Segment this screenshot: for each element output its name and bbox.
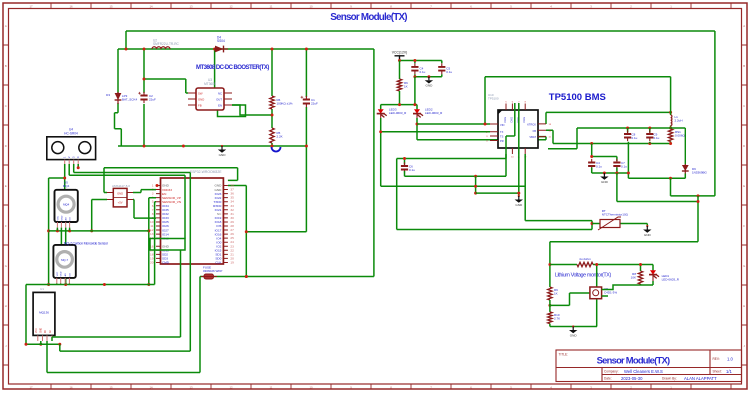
wire C8 stub upper	[627, 128, 629, 132]
wire MQ7 pin nets	[57, 284, 70, 285]
svg-text:4u 2ohm: 4u 2ohm	[579, 257, 591, 261]
sensor U1 MQ136	[33, 287, 55, 341]
wire FB divider link	[232, 105, 272, 115]
wire HC-SR04 pin1 net	[49, 164, 65, 190]
wire L1 upper	[670, 77, 672, 115]
wire C8 drop to gnd bus	[627, 142, 629, 173]
svg-text:15: 15	[109, 4, 113, 8]
IC U10 TP5100 charger	[486, 93, 551, 159]
svg-text:AO: AO	[65, 217, 68, 220]
resistor R6 100K	[270, 96, 293, 109]
svg-text:GND: GND	[219, 153, 227, 157]
junction opto top	[595, 263, 598, 266]
junction L1-RS1 node	[669, 127, 672, 130]
diode D3 BAT_SCK4	[106, 92, 137, 104]
svg-text:MQ-7 Carbon Monoxide Sensor: MQ-7 Carbon Monoxide Sensor	[64, 241, 109, 245]
junction caps mid	[590, 155, 593, 158]
svg-text:E: E	[743, 184, 745, 188]
wire +BAT rail	[118, 48, 374, 50]
junction fuse taps	[245, 275, 248, 278]
wire opto top stub	[596, 265, 598, 288]
svg-text:0.1u: 0.1u	[446, 70, 452, 74]
svg-text:GND: GND	[644, 233, 652, 237]
svg-text:DO: DO	[69, 273, 71, 277]
svg-text:TP5100 BMS: TP5100 BMS	[549, 92, 606, 103]
svg-text:REV:: REV:	[713, 357, 720, 361]
wire R7 upper	[399, 61, 401, 80]
capacitor C2 22uF	[138, 92, 156, 103]
wire vB drop through ESP32	[189, 173, 191, 352]
wire LED3 cathode drop	[380, 118, 382, 186]
resistor RS1 0.006	[668, 129, 685, 142]
svg-text:10: 10	[309, 385, 313, 389]
svg-text:TITLE:: TITLE:	[559, 353, 569, 357]
svg-text:F: F	[743, 224, 745, 228]
svg-text:AMS1117-5.0: AMS1117-5.0	[112, 184, 130, 188]
svg-text:2.2uH: 2.2uH	[675, 119, 683, 123]
resistor R7 1K	[397, 79, 408, 91]
svg-text:MT3608 DC-DC BOOSTER(TX): MT3608 DC-DC BOOSTER(TX)	[196, 65, 269, 71]
svg-text:C: C	[743, 104, 745, 108]
svg-text:TX: TX	[500, 130, 504, 134]
wire R9-R10 link	[549, 300, 551, 312]
svg-text:11: 11	[270, 385, 273, 389]
wire C9 drop to sense	[649, 142, 651, 144]
ground GND of boost rail	[221, 145, 223, 147]
wire lithium gnd bus	[550, 326, 597, 328]
junction LED2 node	[416, 123, 419, 126]
capacitor C10 0.1u	[588, 159, 602, 170]
resistor R10	[548, 312, 560, 324]
svg-text:Company:: Company:	[604, 370, 619, 374]
wire SENSOR_VN drop	[155, 202, 156, 285]
capacitor C1 22uF	[301, 96, 318, 107]
wire boost output drop	[373, 49, 375, 277]
svg-text:GND: GND	[41, 328, 43, 333]
svg-text:Sensor Module(TX): Sensor Module(TX)	[330, 12, 407, 23]
wire R5 lower	[271, 143, 273, 146]
svg-text:FB: FB	[198, 104, 202, 108]
junction sense taps	[590, 142, 593, 145]
resistor R5 2.2K	[270, 128, 283, 143]
svg-text:GND: GND	[570, 334, 578, 338]
diode D4 SS04	[214, 36, 228, 53]
svg-text:GND: GND	[61, 215, 63, 220]
wire C6 bottom	[404, 171, 406, 176]
wire R6-R5 mid	[271, 109, 273, 128]
svg-text:DO: DO	[70, 217, 72, 221]
junction C8 C9 tops	[626, 127, 629, 130]
ground GND of VCC caps	[428, 76, 430, 78]
wire KTRCK loop	[546, 112, 671, 124]
svg-text:GND: GND	[425, 84, 433, 88]
wire LED2 cathode drop	[416, 118, 418, 140]
svg-text:MQ136: MQ136	[39, 311, 49, 315]
wire HC-SR04 pin2 trace	[69, 164, 185, 175]
wire SENSOR_VP drop	[149, 198, 156, 285]
wire sensors analog bus	[26, 284, 155, 286]
wire MQ136 D0 bus	[60, 344, 191, 351]
junction LED3 gnd link	[474, 185, 477, 188]
wire MQ136 A0 bus	[47, 341, 200, 373]
svg-text:TS: TS	[500, 135, 504, 139]
svg-text:CMD: CMD	[162, 261, 170, 265]
wire vA drop through ESP32	[184, 175, 186, 238]
svg-text:CHG: CHG	[503, 117, 507, 123]
svg-text:+5V: +5V	[118, 200, 123, 204]
junction sensor_vp taps	[147, 229, 150, 232]
junction vcc bus taps	[56, 229, 59, 232]
svg-text:B: B	[743, 64, 745, 68]
LED LED3 LED-0603_R	[377, 108, 407, 119]
LED LED2 LED-0603_R	[413, 108, 443, 119]
svg-text:C: C	[5, 104, 7, 108]
svg-text:LED-0603_R: LED-0603_R	[425, 111, 443, 115]
svg-text:2.2K: 2.2K	[277, 135, 283, 139]
junction cap gnd bus	[413, 75, 416, 78]
ground GND of thermistor	[646, 225, 648, 227]
svg-text:ALAN ALAPPATT: ALAN ALAPPATT	[684, 376, 717, 381]
wire LED3 gnd link	[381, 176, 526, 193]
svg-text:1K: 1K	[404, 85, 408, 89]
svg-text:0.1u: 0.1u	[596, 165, 602, 169]
svg-text:22uF: 22uF	[149, 98, 156, 102]
wire right bus down	[714, 31, 716, 196]
capacitor C8 0.1u	[624, 130, 638, 141]
wire top-left drop	[125, 31, 127, 49]
wire C1 upper	[305, 49, 307, 97]
wire VBAT sense line	[546, 130, 671, 143]
wire sensors VCC bus	[49, 230, 149, 232]
svg-text:OUT: OUT	[216, 98, 222, 102]
junction divider taps	[548, 263, 551, 266]
title block	[556, 350, 742, 382]
svg-text:Lithium Voltage monitor(TX): Lithium Voltage monitor(TX)	[555, 273, 612, 279]
junction AMS vin	[90, 229, 93, 232]
svg-text:VBAT: VBAT	[529, 135, 536, 139]
wire AMS out to IO33	[133, 200, 156, 219]
svg-text:13: 13	[189, 4, 193, 8]
junction VIN link	[484, 123, 487, 126]
svg-text:Sheet:: Sheet:	[713, 370, 722, 374]
svg-text:2.7K: 2.7K	[554, 317, 560, 321]
svg-text:10: 10	[309, 4, 313, 8]
svg-text:PR: PR	[500, 139, 504, 143]
capacitor C9 0.1u	[646, 130, 659, 141]
wire AMS vin net	[92, 200, 107, 231]
svg-text:VCC: VCC	[36, 328, 38, 333]
svg-text:VCC: VCC	[57, 271, 59, 276]
wire C2 branch upper	[143, 49, 145, 93]
svg-text:HC-SR04: HC-SR04	[64, 131, 78, 135]
wire hop (blue arc)	[272, 147, 281, 152]
svg-text:GND: GND	[117, 191, 123, 195]
wire D4 anode drop	[214, 49, 216, 88]
svg-text:12: 12	[229, 385, 233, 389]
junction analog bus taps	[64, 283, 67, 286]
svg-text:B: B	[5, 64, 7, 68]
junction gnd pin link	[517, 192, 520, 195]
svg-text:H: H	[743, 304, 745, 308]
wire LED2 to FB	[417, 137, 546, 140]
svg-text:EN: EN	[218, 104, 222, 108]
wire sense resistor line	[550, 264, 653, 266]
wire right return link	[671, 178, 715, 196]
svg-text:GND: GND	[198, 98, 204, 102]
svg-text:15: 15	[109, 385, 113, 389]
wire MQ136 pin4 bus	[52, 337, 181, 341]
svg-text:GND: GND	[601, 180, 609, 184]
wire opto left link	[550, 293, 590, 305]
svg-text:KTRCK: KTRCK	[527, 123, 536, 127]
capacitor C6 0.1u	[401, 162, 415, 173]
svg-text:1K: 1K	[554, 292, 558, 296]
svg-text:MQ-7: MQ-7	[61, 258, 68, 262]
inductor U2 SMFR22U-TR-RC	[152, 39, 180, 50]
svg-text:CLK: CLK	[215, 261, 222, 265]
svg-text:17: 17	[29, 385, 33, 389]
junction LED bus	[398, 103, 401, 106]
junction mid return	[697, 200, 700, 203]
svg-text:G: G	[5, 264, 7, 268]
svg-text:LED-0603_R: LED-0603_R	[662, 278, 680, 282]
wire v1 drop to MQ136	[180, 250, 182, 337]
op-amp U3 MT3608 boost IC	[188, 78, 232, 110]
svg-text:Date:: Date:	[604, 377, 612, 381]
wire mid return to right	[617, 173, 698, 202]
wire 5V bus to right	[104, 168, 238, 193]
svg-text:Sensor Module(TX): Sensor Module(TX)	[597, 355, 670, 366]
wire LED2 stub	[416, 105, 418, 109]
junction thermistor node	[591, 222, 594, 225]
junction C6 top	[403, 157, 406, 160]
wire D9 lower stub	[684, 174, 686, 179]
svg-text:0.006Ω: 0.006Ω	[675, 134, 686, 138]
junction caps bottom	[603, 172, 606, 175]
svg-text:NTCThermistor10Ω: NTCThermistor10Ω	[602, 213, 629, 217]
svg-text:AO: AO	[64, 273, 67, 276]
svg-text:E: E	[5, 184, 7, 188]
svg-text:14: 14	[149, 385, 153, 389]
sensor U5 MQ4	[55, 181, 78, 228]
wire thermistor left net	[397, 159, 592, 230]
wire MQ4 pin nets	[57, 228, 69, 285]
optocoupler U8	[590, 287, 617, 299]
svg-text:D3: D3	[106, 93, 110, 97]
svg-text:0.1u: 0.1u	[654, 136, 660, 140]
wire left gnd drop	[48, 178, 50, 285]
ground GND of charger caps	[603, 172, 605, 174]
svg-text:LED-0603_R: LED-0603_R	[389, 111, 407, 115]
wire top bus	[126, 30, 715, 32]
capacitor C5 0.1u	[438, 63, 452, 74]
power VCC(12V) symbol	[395, 56, 405, 61]
wire HC-SR04 pin3 trace	[74, 164, 191, 173]
wire far-left gnd return	[26, 285, 60, 345]
svg-text:SW: SW	[198, 92, 203, 96]
svg-text:1/1: 1/1	[726, 369, 732, 374]
sensor U9 MQ-7	[53, 245, 75, 284]
wire battery minus bus	[628, 173, 685, 178]
wire gnd net mid	[405, 103, 515, 176]
junction L1 top tap	[669, 111, 672, 114]
svg-text:D: D	[5, 144, 7, 148]
junction HC pin1	[63, 177, 66, 180]
junction gnd return ends	[25, 343, 28, 346]
svg-text:SMFR22U-TR-RC: SMFR22U-TR-RC	[153, 42, 180, 46]
resistor R11 2ohm	[577, 257, 593, 267]
junction right return	[697, 194, 700, 197]
svg-text:1.0: 1.0	[727, 357, 733, 362]
sensor U4 HC-SR04	[47, 128, 96, 167]
wire battery branch upper	[117, 49, 119, 93]
ground GND of lithium monitor	[572, 325, 574, 327]
wire bottom rail (GND)	[118, 145, 306, 147]
LED LED1 LED-0603_R	[649, 270, 680, 282]
junction LED3-pin2	[379, 130, 382, 133]
wire GND cluster loop	[150, 239, 185, 251]
svg-text:NC: NC	[218, 92, 222, 96]
wire TS net to thermistor	[525, 154, 592, 224]
IC ESP32 pin labels	[150, 184, 234, 265]
wire fuse line	[200, 276, 374, 278]
wire RS1 lower	[670, 142, 672, 144]
svg-text:C4D1-3%: C4D1-3%	[604, 291, 617, 295]
junction dots power section	[125, 48, 128, 51]
wire VCC caps bus	[400, 61, 442, 64]
wire caps bottom bus	[592, 168, 629, 174]
svg-text:VCC: VCC	[57, 215, 59, 220]
svg-text:14: 14	[149, 4, 153, 8]
capacitor C7 0.1u	[613, 159, 627, 170]
svg-text:17: 17	[29, 4, 33, 8]
svg-text:A: A	[743, 24, 745, 28]
wire boost-to-charger top link	[485, 77, 671, 124]
wire MT3608 SW feed	[144, 79, 188, 93]
wire R7 to LEDs	[399, 91, 401, 105]
wire LED anode bus	[381, 104, 417, 106]
wire C4 bottom drop to LED bus	[414, 77, 416, 105]
wire gnd pin link	[476, 103, 519, 196]
svg-text:1N5369BG: 1N5369BG	[692, 171, 708, 175]
wire R10 bottom	[549, 324, 551, 327]
wire R6 upper	[271, 49, 273, 96]
svg-text:Drawn By:: Drawn By:	[662, 377, 677, 381]
svg-text:MQ4: MQ4	[63, 184, 70, 188]
junction loop top	[639, 263, 642, 266]
wire lithium top bus	[550, 241, 698, 243]
wire L1-RS1 mid	[670, 126, 672, 129]
capacitor C4 0.1u	[411, 63, 425, 74]
svg-text:0.1u: 0.1u	[409, 168, 415, 172]
wire R8 LED1 loop	[602, 265, 653, 297]
svg-text:11: 11	[270, 4, 273, 8]
fuse F1 0306026WKP	[201, 266, 222, 280]
IC ESP32 pin stubs	[156, 186, 228, 263]
resistor R8 10K	[631, 271, 643, 284]
svg-text:CHG: CHG	[509, 117, 513, 123]
svg-text:100KΩ ±1%: 100KΩ ±1%	[277, 102, 293, 106]
wire EN loop	[218, 105, 246, 117]
junction left drop taps	[47, 229, 50, 232]
wire C4 stub top	[414, 61, 416, 64]
svg-text:VCC(12V): VCC(12V)	[392, 51, 407, 55]
wire C2 branch lower	[143, 104, 145, 146]
regulator U7 AMS1117-5.0	[107, 184, 133, 207]
svg-text:GND: GND	[515, 203, 523, 207]
svg-text:0.1u: 0.1u	[621, 165, 627, 169]
wire AMS out to VDD33	[133, 190, 156, 193]
junction 5V bus taps	[77, 166, 80, 169]
svg-text:0.1u: 0.1u	[420, 70, 426, 74]
wire v3 drop	[199, 277, 201, 373]
svg-text:U1: U1	[40, 287, 44, 291]
svg-text:Well Cleaners E.W.S: Well Cleaners E.W.S	[624, 369, 663, 374]
svg-text:BAT_SCK4: BAT_SCK4	[122, 98, 137, 102]
junction cap bus	[398, 59, 401, 62]
diode D9 zener 1N5369BG	[682, 128, 708, 175]
wire caps mid bus	[592, 144, 617, 162]
wire LED3 stub	[380, 105, 382, 109]
svg-text:22uF: 22uF	[311, 102, 318, 106]
wire opto bottom stub	[596, 299, 598, 327]
svg-text:13: 13	[189, 385, 193, 389]
svg-text:MQ4: MQ4	[63, 203, 70, 207]
svg-text:SS04: SS04	[217, 39, 225, 43]
wire battery branch lower (with connector notch)	[115, 103, 122, 146]
thermistor RT NTC 10k	[598, 209, 629, 230]
wire prog net	[397, 154, 506, 159]
wire divider chain top	[549, 242, 551, 287]
svg-text:0.1u: 0.1u	[632, 136, 638, 140]
svg-text:G: G	[743, 264, 745, 268]
wire TP5100 pin2 line	[381, 131, 490, 133]
svg-text:H: H	[5, 304, 7, 308]
wire TP5100 VIN line	[417, 123, 490, 125]
svg-text:CHG: CHG	[522, 117, 526, 123]
junction gnd mid	[474, 175, 477, 178]
junction battery minus	[669, 177, 672, 180]
svg-text:MT3608: MT3608	[204, 82, 216, 86]
wire C9 stub upper	[649, 128, 651, 132]
inductor L1 2.2uH	[671, 115, 683, 126]
svg-text:D: D	[743, 144, 745, 148]
wire C8C9 top bus	[548, 128, 685, 149]
svg-text:20: 20	[150, 260, 154, 264]
svg-text:TP5100: TP5100	[488, 97, 499, 101]
wire C1 branch to ESP32	[228, 146, 307, 277]
svg-text:0306026 WKP: 0306026 WKP	[203, 269, 222, 273]
wire charger mid drop	[697, 196, 699, 242]
svg-text:19: 19	[230, 260, 234, 264]
resistor R9	[548, 287, 558, 300]
svg-text:F: F	[5, 224, 7, 228]
svg-text:12: 12	[229, 4, 233, 8]
svg-text:FB: FB	[533, 129, 537, 133]
wire C1 lower	[305, 107, 307, 146]
svg-text:ESP32-WROOM32E: ESP32-WROOM32E	[190, 170, 222, 174]
svg-text:16: 16	[69, 4, 73, 8]
svg-text:2023-05-30: 2023-05-30	[621, 376, 643, 381]
svg-text:16: 16	[69, 385, 73, 389]
ground GND under TP5100	[518, 195, 520, 197]
svg-text:A: A	[5, 24, 7, 28]
svg-text:10K: 10K	[631, 276, 636, 280]
wire cap gnd bus	[415, 74, 442, 77]
wire C6 stub top	[404, 159, 406, 165]
wire HC-SR04 pin4 trace	[78, 164, 237, 180]
svg-text:GND: GND	[61, 271, 63, 276]
